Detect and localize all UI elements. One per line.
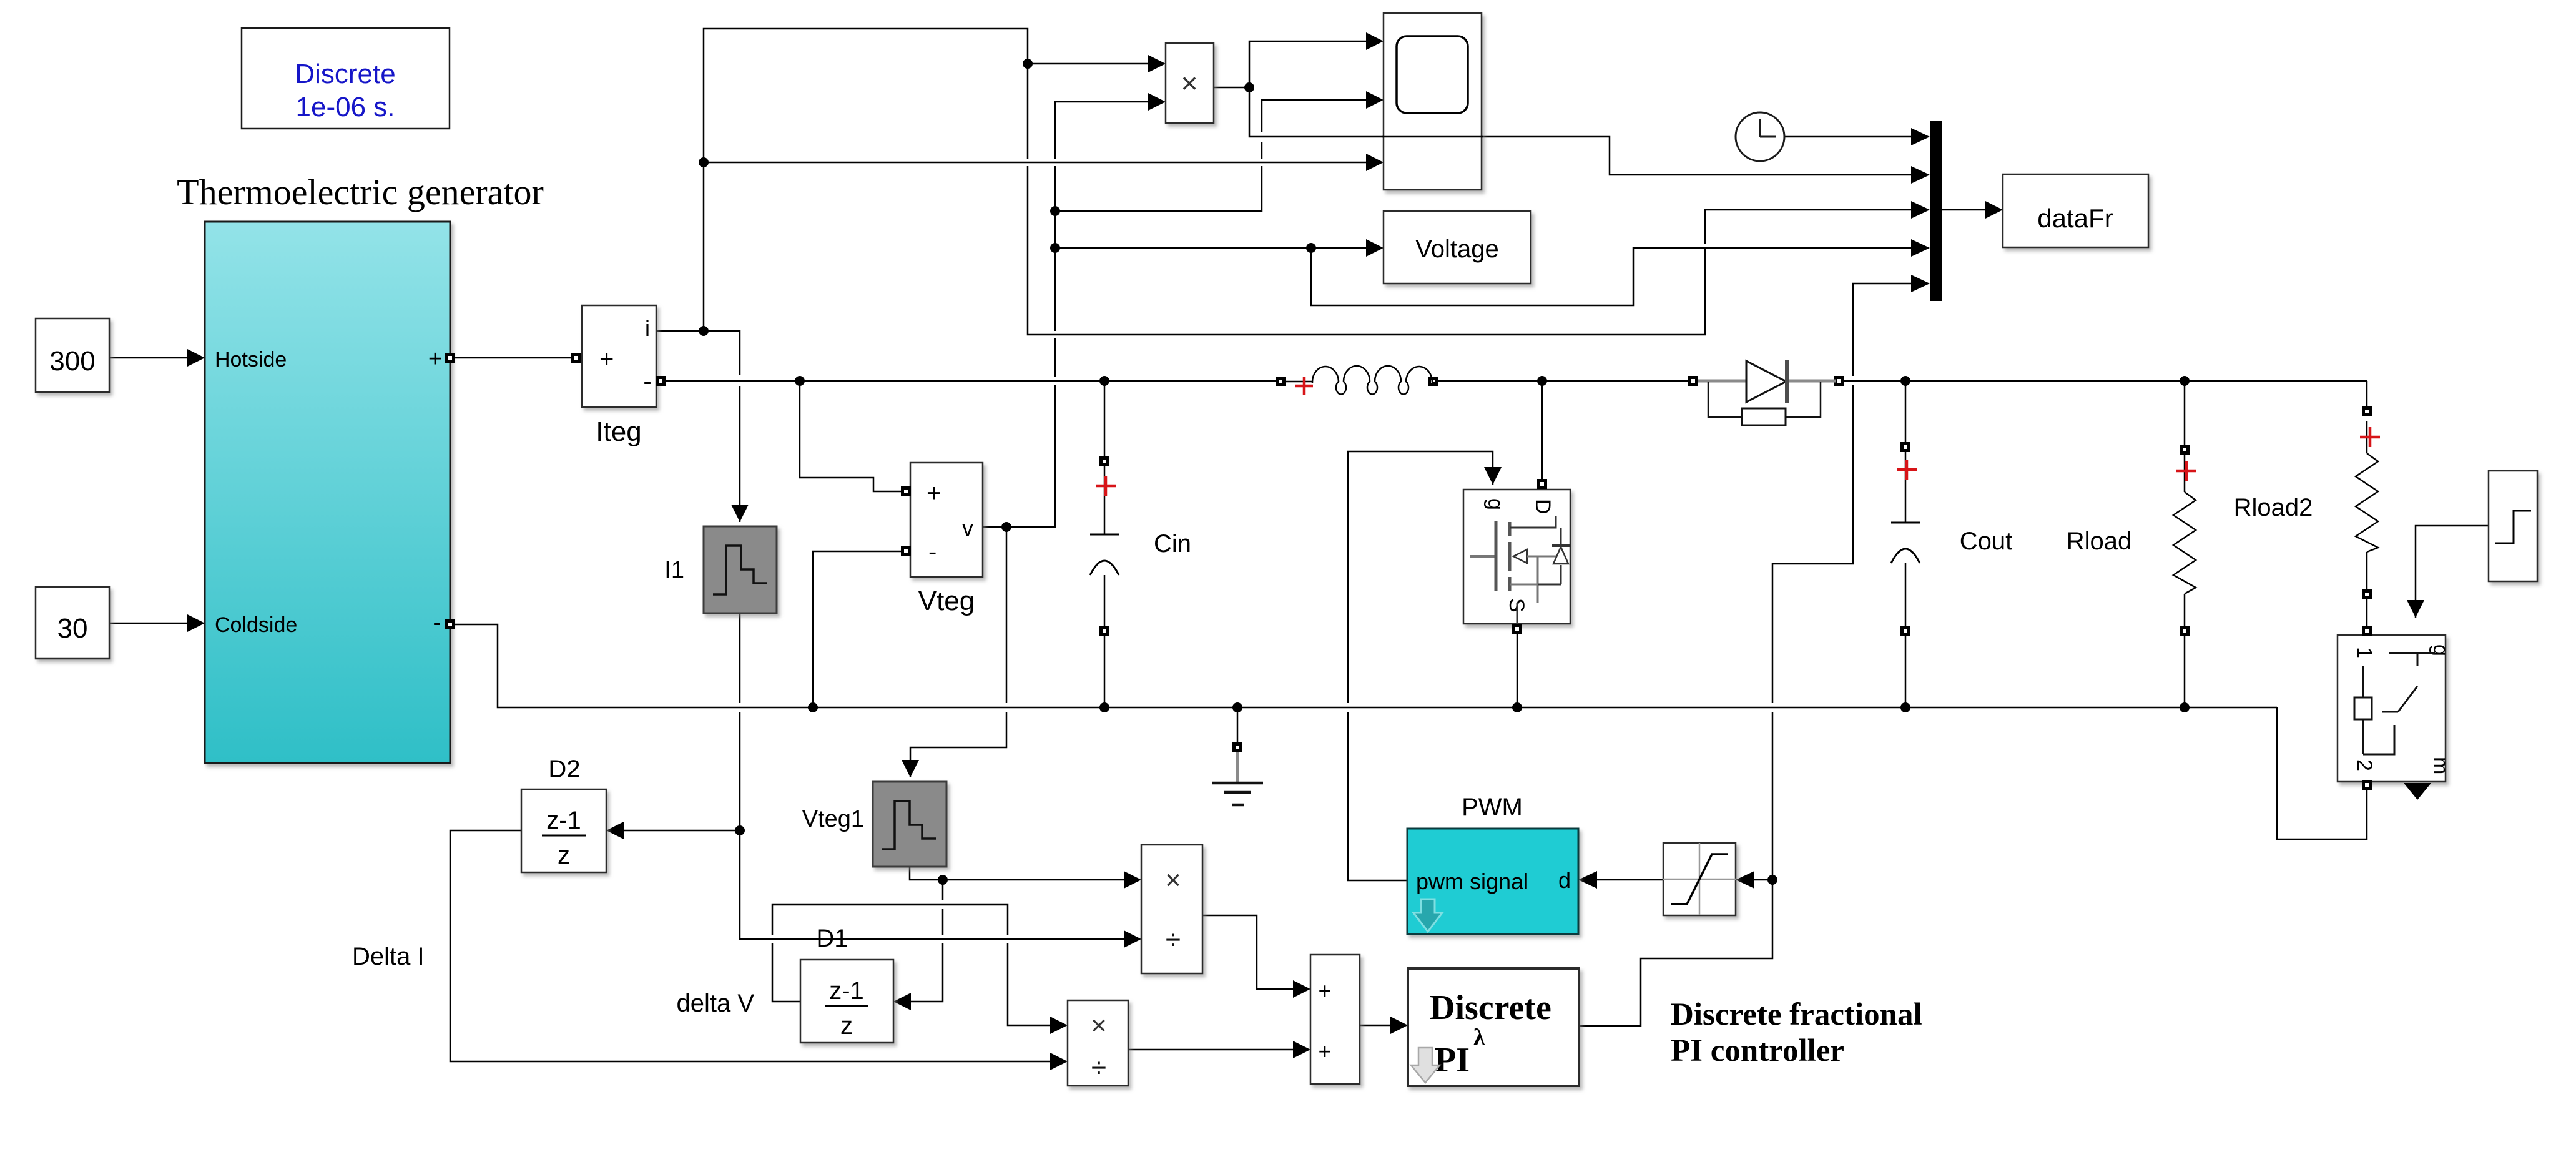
svg-text:×: × <box>1181 67 1198 99</box>
signal spec Vteg1 (gray) <box>873 782 946 867</box>
constant block 30 <box>36 587 109 659</box>
wire: switch bottom return <box>2277 707 2367 839</box>
svg-text:+: + <box>1318 1038 1331 1064</box>
wire: drain to rail <box>1541 381 1543 480</box>
MOSFET block <box>1463 490 1570 624</box>
svg-text:i: i <box>645 315 650 341</box>
product block (x) <box>1166 43 1214 123</box>
svg-text:d: d <box>1558 867 1571 893</box>
constant block 300 <box>36 318 109 392</box>
wire: mux output to dataFr <box>1942 209 1985 211</box>
wire: constant 300 to Hotside <box>109 357 187 359</box>
wire: PI output to saturation <box>1579 880 1772 1026</box>
wire: clock to mux in1 <box>1784 136 1911 138</box>
node: dot MOSFET drain (2470,610) <box>1537 376 1547 386</box>
svg-text:Cin: Cin <box>1154 530 1191 558</box>
wire: saturation output to PWM d <box>1597 879 1663 881</box>
wire: Vteg1 down to delta V input <box>911 880 943 1002</box>
svg-text:g: g <box>2429 644 2452 656</box>
wire: Vteg1 output <box>910 867 943 880</box>
svg-text:-: - <box>433 609 441 636</box>
svg-text:Thermoelectric generator: Thermoelectric generator <box>177 172 544 212</box>
node: dot Rload top (3499,610) <box>2180 376 2190 386</box>
wire: Vteg v output <box>983 102 1148 527</box>
port square: switch port 2 <box>2362 780 2372 790</box>
wire: rail down to Rload2 <box>2366 381 2368 406</box>
wire: source to bottom rail <box>1517 633 1518 707</box>
wire: v to Voltage display <box>1055 247 1366 249</box>
svg-text:D: D <box>1531 499 1555 514</box>
svg-text:z-1: z-1 <box>546 807 581 834</box>
signal spec I1 (gray) <box>704 526 777 613</box>
PWM subsystem block <box>1407 829 1578 934</box>
voltage sensor Vteg <box>910 463 983 577</box>
svg-text:g: g <box>1483 498 1507 510</box>
svg-text:PI controller: PI controller <box>1671 1033 1844 1068</box>
port square: Hotside + output <box>445 353 455 363</box>
multiply-divide block 2 <box>1068 1000 1128 1086</box>
node: dot (1690,338) <box>1050 206 1060 216</box>
svg-text:×: × <box>1165 865 1181 895</box>
wire: constant 30 to Coldside <box>109 623 187 624</box>
wire: v to mux in4 via dip <box>1311 248 1911 305</box>
svg-text:PWM: PWM <box>1462 794 1523 821</box>
capacitor Cout <box>1891 381 1920 707</box>
wire: i to product input 1 <box>1028 63 1148 65</box>
svg-text:dataFr: dataFr <box>2037 204 2113 233</box>
wire: power line crossing over scope <box>1382 136 1483 138</box>
svg-text:30: 30 <box>57 613 88 644</box>
port square: MOSFET drain <box>1537 479 1547 489</box>
svg-text:m: m <box>2429 757 2452 774</box>
node: dot (1646,102) <box>1023 59 1033 69</box>
wire: D2 output Delta I line to divide2 <box>450 830 1050 1061</box>
svg-text:300: 300 <box>49 346 95 377</box>
svg-text:Rload: Rload <box>2067 528 2132 555</box>
wire: power crossing line to mux in2 <box>1249 87 1911 175</box>
wire: PWM output to MOSFET gate <box>1348 451 1493 880</box>
add block <box>1310 955 1360 1084</box>
svg-text:Vteg1: Vteg1 <box>802 806 864 832</box>
node: dot (1127,260) <box>699 157 709 167</box>
svg-text:1: 1 <box>2352 647 2376 659</box>
ground symbol <box>1212 707 1263 805</box>
svg-text:+: + <box>599 345 614 373</box>
node: dot v-output (1612,844) <box>1001 522 1011 532</box>
current sensor Iteg <box>582 305 656 407</box>
wire: to D2 input <box>624 830 740 832</box>
svg-text:I1: I1 <box>664 557 684 583</box>
wire: multiply1 output to add <box>1202 915 1293 989</box>
svg-text:z-1: z-1 <box>829 977 864 1005</box>
wire: I1 output down to D2 junction and D1 line <box>740 613 1124 939</box>
inductor L <box>1276 366 1438 395</box>
node: dot (1185,1330) <box>735 825 745 835</box>
wire: rail to Vteg + input <box>800 381 905 491</box>
node: dot (1690,397) <box>1050 243 1060 253</box>
node: dot on rail (1281,610) <box>795 376 805 386</box>
svg-text:λ: λ <box>1473 1025 1485 1051</box>
node: dot Rload bottom (3499,1133) <box>2180 702 2190 712</box>
voltage display block <box>1384 211 1531 283</box>
svg-text:Cout: Cout <box>1960 528 2013 555</box>
svg-text:delta V: delta V <box>676 990 754 1017</box>
wire: bottom negative rail y=1133 <box>455 624 2277 707</box>
svg-text:z: z <box>840 1012 853 1040</box>
svg-text:Discrete fractional: Discrete fractional <box>1671 997 1922 1032</box>
unit delay delta V <box>800 960 893 1043</box>
svg-text:+: + <box>927 480 941 507</box>
Discrete PI controller block <box>1408 968 1579 1086</box>
wire: delta V output loop to multiply2 <box>772 905 1050 1025</box>
resistor Rload <box>2173 381 2196 707</box>
svg-text:Discrete: Discrete <box>1430 988 1551 1027</box>
step block <box>2489 471 2537 581</box>
wire: Iteg i output branch <box>656 331 740 522</box>
node: dot Cout top (3052,610) <box>1900 376 1910 386</box>
wire: product output <box>1214 87 1249 89</box>
node: dot (2430,1133) <box>1512 702 1522 712</box>
svg-text:Iteg: Iteg <box>596 416 641 447</box>
node: dot ground (1982,1133) <box>1232 702 1242 712</box>
mux bar <box>1930 121 1942 301</box>
svg-text:+: + <box>428 346 442 372</box>
saturation block <box>1663 843 1736 915</box>
node: dot (1510,1409) <box>938 875 948 885</box>
wire: multiply2 output to add <box>1128 1049 1293 1051</box>
svg-text:PI: PI <box>1435 1041 1470 1080</box>
node: dot Cout bottom (3052,1133) <box>1900 702 1910 712</box>
wire: add output to Discrete PI <box>1360 1025 1390 1027</box>
svg-text:Coldside: Coldside <box>215 613 297 637</box>
wire: i signal up-and-over to mux in3 <box>704 29 1911 335</box>
node: dot (2839,1409) <box>1767 875 1777 885</box>
port square: switch port 1 <box>2362 626 2372 636</box>
multiply-divide block 1 <box>1141 845 1202 973</box>
resistor Rload2 <box>2356 406 2380 636</box>
wire: Vteg - input to bottom rail <box>813 551 905 707</box>
svg-text:Voltage: Voltage <box>1415 235 1498 263</box>
svg-text:-: - <box>928 538 937 566</box>
svg-text:pwm signal: pwm signal <box>1416 869 1528 894</box>
wire: main positive rail y=610 <box>665 380 2367 382</box>
wire: Vteg1 to multiply1 <box>943 879 1124 881</box>
svg-text:÷: ÷ <box>1166 925 1181 955</box>
svg-text:D2: D2 <box>548 756 580 783</box>
svg-text:-: - <box>643 368 651 395</box>
wire: v to scope input 2 <box>1055 100 1366 211</box>
wire: product to scope input 1 <box>1249 41 1366 87</box>
switch m unconnected marker <box>2404 783 2431 800</box>
svg-text:Delta I: Delta I <box>352 943 425 970</box>
svg-text:×: × <box>1091 1010 1107 1041</box>
svg-text:Rload2: Rload2 <box>2234 494 2313 521</box>
capacitor Cin <box>1090 381 1119 707</box>
port square: Coldside - output <box>445 619 455 629</box>
scope block <box>1384 13 1482 190</box>
svg-text:2: 2 <box>2352 759 2376 771</box>
diode D with RC snubber <box>1688 360 1844 425</box>
svg-text:Vteg: Vteg <box>918 586 975 616</box>
svg-text:Hotside: Hotside <box>215 348 287 372</box>
unit delay D2 <box>521 789 606 872</box>
svg-text:v: v <box>962 515 973 541</box>
svg-text:D1: D1 <box>816 925 848 952</box>
subsystem: Thermoelectric generator block <box>205 222 450 763</box>
svg-text:÷: ÷ <box>1091 1053 1106 1083</box>
node: dot Cin bottom (1769,1133) <box>1099 702 1109 712</box>
node: dot product out (2001,140) <box>1244 82 1254 92</box>
wire: step to switch gate <box>2416 526 2489 618</box>
node: i-junction at (1127,530) <box>699 326 709 336</box>
svg-text:z: z <box>558 842 570 869</box>
sample time box "Discrete 1e-06 s." <box>242 28 450 129</box>
svg-text:Discrete: Discrete <box>295 59 395 89</box>
dataFr block <box>2003 174 2148 247</box>
switch block <box>2338 635 2446 782</box>
node: dot Cin top (1769,610) <box>1099 376 1109 386</box>
wire: Hotside to Iteg <box>450 357 582 359</box>
svg-text:+: + <box>1318 978 1331 1003</box>
svg-text:1e-06 s.: 1e-06 s. <box>296 92 395 122</box>
wire: v down to Vteg1 <box>910 527 1006 777</box>
wire: duty cycle to mux in5 <box>1772 283 1911 880</box>
node: dot (1302,1133) <box>808 702 818 712</box>
port square: MOSFET source <box>1512 624 1522 634</box>
wire: i to scope input 3 <box>704 162 1366 164</box>
clock <box>1736 112 1784 161</box>
node: dot (2100,397) <box>1306 243 1316 253</box>
